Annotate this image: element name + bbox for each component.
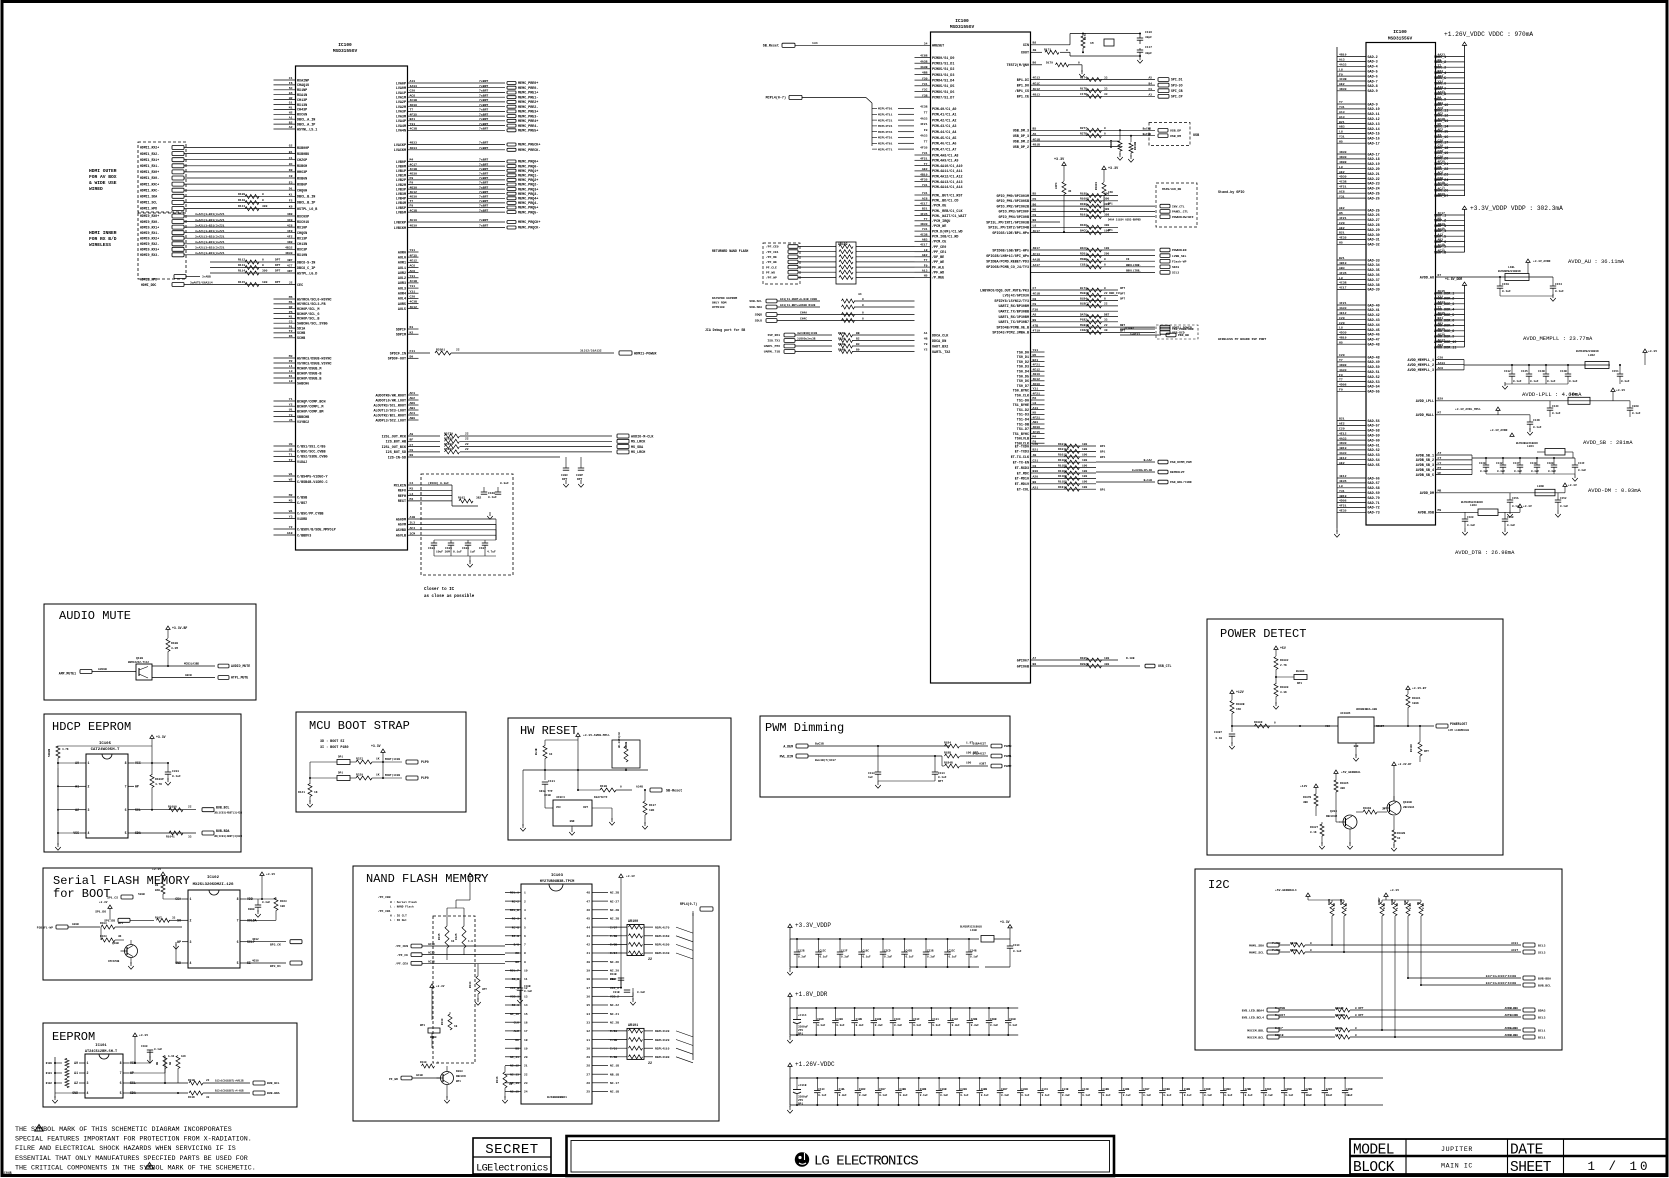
svg-text:3: 3 bbox=[88, 808, 90, 812]
svg-text:Y3C: Y3C bbox=[922, 88, 928, 92]
svg-text:R136: R136 bbox=[496, 1076, 499, 1083]
svg-text:44: 44 bbox=[586, 926, 590, 929]
svg-text:R1B4: R1B4 bbox=[944, 742, 951, 745]
svg-text:R1011A: R1011A bbox=[1058, 448, 1069, 451]
svg-text:D303: D303 bbox=[456, 1070, 463, 1073]
svg-text:OPT: OPT bbox=[1120, 292, 1125, 295]
svg-text:SCL3: SCL3 bbox=[1538, 950, 1546, 954]
svg-text:+5V: +5V bbox=[1280, 646, 1286, 650]
svg-text:MEMC_PRECK-: MEMC_PRECK- bbox=[518, 149, 540, 153]
svg-text:A9: A9 bbox=[410, 432, 414, 436]
svg-text:EEPROM: EEPROM bbox=[52, 1030, 95, 1044]
svg-text:TS0_D4: TS0_D4 bbox=[1017, 371, 1029, 375]
svg-text:4E12: 4E12 bbox=[1339, 474, 1347, 478]
svg-text:B3: B3 bbox=[856, 343, 860, 346]
svg-text:GAD-68: GAD-68 bbox=[1368, 487, 1380, 491]
svg-text:1.5K: 1.5K bbox=[1333, 902, 1336, 909]
svg-text:0.3uF: 0.3uF bbox=[839, 1094, 847, 1097]
svg-text:R100B: R100B bbox=[1236, 703, 1245, 706]
svg-text:/PF_CB0: /PF_CB0 bbox=[378, 895, 391, 899]
svg-text:PCML_WAIT/C1_WAIT: PCML_WAIT/C1_WAIT bbox=[932, 214, 967, 219]
svg-text:31J12/31A132: 31J12/31A132 bbox=[580, 349, 602, 353]
svg-text:Y31: Y31 bbox=[410, 289, 416, 293]
svg-text:T7: T7 bbox=[1339, 378, 1343, 382]
svg-text:PCML45/C1_A5: PCML45/C1_A5 bbox=[932, 136, 956, 141]
svg-text:TS0LVLB: TS0LVLB bbox=[1015, 438, 1029, 442]
svg-text:DPT: DPT bbox=[562, 478, 567, 481]
svg-text:XOUT: XOUT bbox=[1021, 52, 1029, 56]
svg-text:R110: R110 bbox=[238, 199, 245, 202]
svg-text:TS0_D1: TS0_D1 bbox=[1017, 356, 1029, 360]
svg-text:DPT: DPT bbox=[938, 780, 943, 783]
svg-text:+3.3V-AVDB-MPLL: +3.3V-AVDB-MPLL bbox=[583, 734, 610, 737]
svg-text:GAD-48: GAD-48 bbox=[1368, 356, 1380, 360]
svg-text:4C8B: 4C8B bbox=[920, 54, 928, 58]
svg-text:LVA0M: LVA0M bbox=[396, 87, 406, 91]
svg-text:GAD-4: GAD-4 bbox=[1368, 66, 1378, 70]
svg-text:100: 100 bbox=[1082, 475, 1087, 478]
svg-text:C1BB: C1BB bbox=[1123, 1088, 1130, 1091]
svg-text:7xBRT: 7xBRT bbox=[479, 172, 488, 176]
svg-text:M4: M4 bbox=[410, 158, 414, 162]
svg-text:R+1M3B: R+1M3B bbox=[1275, 1007, 1285, 1010]
svg-text:R34B: R34B bbox=[838, 349, 845, 352]
svg-text:BCHQP/COMP_BCH: BCHQP/COMP_BCH bbox=[297, 399, 326, 404]
svg-text:GAD-60: GAD-60 bbox=[1368, 439, 1380, 443]
svg-text:USB_DM: USB_DM bbox=[1170, 134, 1181, 138]
svg-text:0.3uF: 0.3uF bbox=[1062, 1094, 1070, 1097]
svg-text:LVA4N: LVA4N bbox=[396, 130, 406, 134]
svg-text:NC_13: NC_13 bbox=[510, 1073, 519, 1076]
svg-text:C34B: C34B bbox=[970, 950, 977, 953]
svg-text:/PF_WD: /PF_WD bbox=[932, 271, 944, 276]
svg-text:C30B: C30B bbox=[836, 1018, 843, 1021]
svg-text:Y1: Y1 bbox=[289, 397, 293, 401]
svg-text:22: 22 bbox=[456, 349, 460, 352]
svg-text:0: 0 bbox=[1104, 264, 1106, 267]
svg-text:NC.17: NC.17 bbox=[610, 1082, 619, 1085]
svg-text:C150: C150 bbox=[1502, 283, 1509, 286]
svg-text:P5: P5 bbox=[289, 310, 293, 314]
svg-text:+1.26V_VDDC VDDC : 970mA: +1.26V_VDDC VDDC : 970mA bbox=[1444, 31, 1533, 38]
svg-text:A13: A13 bbox=[922, 268, 928, 272]
svg-text:4E12: 4E12 bbox=[410, 190, 418, 194]
svg-text:BUB_BCL: BUB_BCL bbox=[1538, 983, 1551, 987]
svg-text:NC-27: NC-27 bbox=[610, 900, 619, 903]
svg-text:C12C: C12C bbox=[820, 950, 827, 953]
svg-text:34: 34 bbox=[586, 1013, 590, 1016]
svg-text:TS0_D7: TS0_D7 bbox=[1017, 385, 1029, 389]
svg-text:3+A21(3+B21(3+Z21: 3+A21(3+B21(3+Z21 bbox=[195, 223, 225, 227]
svg-text:4B19: 4B19 bbox=[1339, 446, 1347, 450]
svg-text:33: 33 bbox=[206, 1096, 210, 1099]
svg-text:B6: B6 bbox=[1033, 61, 1037, 65]
svg-text:38: 38 bbox=[586, 978, 590, 981]
svg-text:WIRELESS: WIRELESS bbox=[89, 242, 111, 248]
svg-text:4T19: 4T19 bbox=[1033, 329, 1041, 333]
svg-text:Y31: Y31 bbox=[922, 227, 928, 231]
svg-text:GAD-61: GAD-61 bbox=[1368, 444, 1380, 448]
svg-text:AE2: AE2 bbox=[1339, 461, 1345, 465]
svg-text:SPI3L_PM/INT2/GPIO4B: SPI3L_PM/INT2/GPIO4B bbox=[988, 226, 1029, 231]
svg-text:B21: B21 bbox=[1033, 448, 1039, 452]
svg-text:C/BSB: C/BSB bbox=[297, 495, 307, 500]
svg-text:0.1uF: 0.1uF bbox=[820, 956, 828, 959]
svg-text:3C3C4: 3C3C4 bbox=[556, 796, 565, 799]
svg-text:D1T9: D1T9 bbox=[1046, 62, 1053, 65]
svg-text:MXCCM_BDL: MXCCM_BDL bbox=[1247, 1028, 1264, 1032]
svg-text:LVA2M: LVA2M bbox=[396, 106, 406, 110]
svg-text:0.3uF: 0.3uF bbox=[1578, 469, 1586, 472]
svg-text:MEMC_PRE0-: MEMC_PRE0- bbox=[518, 87, 538, 91]
svg-text:MEMC_PRQ0+: MEMC_PRQ0+ bbox=[518, 161, 538, 165]
svg-text:T2: T2 bbox=[289, 329, 293, 333]
svg-text:C12B: C12B bbox=[798, 950, 805, 953]
svg-text:L8: L8 bbox=[1339, 326, 1343, 330]
svg-text:MCPL4T31: MCPL4T31 bbox=[878, 125, 893, 128]
svg-text:0.3uF: 0.3uF bbox=[500, 482, 509, 485]
svg-text:+3.3V: +3.3V bbox=[139, 1034, 148, 1037]
svg-text:D3B0: D3B0 bbox=[248, 908, 255, 911]
svg-text:B21: B21 bbox=[1033, 358, 1039, 362]
svg-text:PCM_D(0M)/C1_WD: PCM_D(0M)/C1_WD bbox=[932, 229, 963, 234]
svg-text:BYB_LED_BCL4: BYB_LED_BCL4 bbox=[1242, 1015, 1264, 1019]
svg-text:4E35: 4E35 bbox=[1339, 509, 1347, 513]
svg-text:PCML4A11/C1_A11: PCML4A11/C1_A11 bbox=[932, 169, 963, 174]
svg-text:BLM18PG221BH1D: BLM18PG221BH1D bbox=[1461, 501, 1483, 504]
svg-text:0PT: 0PT bbox=[482, 988, 487, 991]
svg-text:RGPL4120: RGPL4120 bbox=[655, 1039, 670, 1042]
svg-text:GAD-50: GAD-50 bbox=[1368, 366, 1380, 370]
svg-text:SB-Reset: SB-Reset bbox=[666, 790, 682, 794]
svg-text:GAD-25: GAD-25 bbox=[1368, 209, 1380, 213]
svg-text:AVDD_DM: AVDD_DM bbox=[1420, 492, 1434, 496]
svg-text:0.1uF: 0.1uF bbox=[1502, 290, 1511, 293]
svg-text:1N1A TYP: 1N1A TYP bbox=[539, 790, 553, 793]
svg-text:& WIDE USE: & WIDE USE bbox=[89, 180, 117, 186]
svg-text:MEMC_PRQ3+: MEMC_PRQ3+ bbox=[518, 188, 538, 192]
svg-text:C1: C1 bbox=[289, 156, 293, 160]
svg-text:100: 100 bbox=[1104, 247, 1109, 250]
svg-text:AC8: AC8 bbox=[1339, 189, 1345, 193]
svg-text:USB_DM_2: USB_DM_2 bbox=[1013, 140, 1029, 144]
svg-text:ESSENTIAL THAT ONLY MANUFATURE: ESSENTIAL THAT ONLY MANUFATURES SPECFIED… bbox=[15, 1155, 248, 1163]
svg-text:K6: K6 bbox=[289, 205, 293, 209]
svg-text:VCC: VCC bbox=[1325, 725, 1330, 728]
svg-text:HDMI1_RX1-: HDMI1_RX1- bbox=[140, 164, 159, 168]
svg-text:A8: A8 bbox=[1033, 313, 1037, 317]
svg-text:R1BB2B: R1BB2B bbox=[1335, 1014, 1345, 1017]
svg-text:R1BE: R1BE bbox=[1335, 1027, 1342, 1030]
svg-text:+3.3V-BF: +3.3V-BF bbox=[172, 626, 187, 630]
svg-text:USB: USB bbox=[1193, 134, 1199, 138]
svg-text:B30: B30 bbox=[1033, 469, 1039, 473]
svg-text:NC.2B: NC.2B bbox=[610, 892, 619, 895]
svg-text:C30B: C30B bbox=[940, 1088, 947, 1091]
svg-text:/PF_CE1: /PF_CE1 bbox=[766, 250, 779, 254]
svg-text:GAD-55: GAD-55 bbox=[1368, 391, 1380, 395]
svg-text:B21: B21 bbox=[1339, 417, 1345, 421]
svg-text:C20: C20 bbox=[1438, 356, 1444, 360]
svg-text:R109P: R109P bbox=[155, 778, 164, 781]
svg-text:7xBRT: 7xBRT bbox=[479, 79, 488, 83]
svg-text:1uBT21: 1uBT21 bbox=[1130, 333, 1140, 336]
svg-text:4D30: 4D30 bbox=[1033, 425, 1041, 429]
svg-text:7xBRT: 7xBRT bbox=[479, 127, 488, 131]
svg-text:A50DM: A50DM bbox=[396, 518, 406, 522]
svg-text:K7: K7 bbox=[1438, 273, 1442, 277]
svg-text:GAD-9: GAD-9 bbox=[1368, 103, 1378, 107]
svg-text:4A33: 4A33 bbox=[1339, 451, 1347, 455]
svg-text:U2: U2 bbox=[289, 447, 293, 451]
svg-text:4E12: 4E12 bbox=[1033, 377, 1041, 381]
svg-text:C30B: C30B bbox=[1021, 1088, 1028, 1091]
svg-text:M1: M1 bbox=[289, 315, 293, 319]
svg-text:3BuF: 3BuF bbox=[1346, 1094, 1353, 1097]
svg-text:4: 4 bbox=[87, 1091, 89, 1095]
svg-text:HCD0B4BEA-A0B: HCD0B4BEA-A0B bbox=[1356, 708, 1377, 711]
svg-text:7xBRT: 7xBRT bbox=[479, 117, 488, 121]
svg-text:1: 1 bbox=[88, 761, 90, 765]
svg-text:C20: C20 bbox=[410, 89, 416, 93]
svg-text:0.3uF: 0.3uF bbox=[1548, 470, 1556, 473]
svg-text:BLM18PG221BH1D: BLM18PG221BH1D bbox=[1576, 350, 1599, 353]
svg-text:A13: A13 bbox=[410, 79, 416, 83]
svg-text:4E1C: 4E1C bbox=[1033, 81, 1041, 85]
svg-text:33: 33 bbox=[1104, 319, 1108, 322]
svg-text:4B19: 4B19 bbox=[1339, 336, 1347, 340]
svg-text:0.1uF: 0.1uF bbox=[453, 551, 462, 554]
svg-text:C31B: C31B bbox=[613, 991, 620, 994]
svg-text:A13: A13 bbox=[1339, 58, 1345, 62]
svg-text:CHQ6H: CHQ6H bbox=[297, 190, 307, 194]
svg-text:MLB3B: MLB3B bbox=[1080, 324, 1089, 327]
svg-text:R1008: R1008 bbox=[1254, 721, 1263, 724]
svg-text:GAD-16: GAD-16 bbox=[1368, 138, 1380, 142]
svg-text:SP1_DO: SP1_DO bbox=[95, 911, 106, 914]
svg-text:1K: 1K bbox=[376, 758, 380, 761]
svg-text:MEMC_PRE4+: MEMC_PRE4+ bbox=[518, 120, 538, 124]
svg-text:0: 0 bbox=[262, 193, 264, 196]
svg-text:F9: F9 bbox=[1033, 213, 1037, 217]
svg-text:AC8: AC8 bbox=[922, 196, 928, 200]
svg-text:IC102: IC102 bbox=[207, 876, 220, 880]
svg-text:GND: GND bbox=[570, 820, 575, 823]
svg-text:JUPITER: JUPITER bbox=[1441, 1146, 1473, 1153]
svg-text:2: 2 bbox=[87, 1071, 89, 1075]
svg-text:MCPL4T41: MCPL4T41 bbox=[878, 131, 893, 134]
svg-text:Y31: Y31 bbox=[1033, 348, 1039, 352]
svg-text:AUDOTR0/HR_ROUT: AUDOTR0/HR_ROUT bbox=[375, 393, 406, 398]
svg-text:MXCCM_BCL: MXCCM_BCL bbox=[1247, 1035, 1264, 1039]
svg-text:PCML4A14/C1_A14: PCML4A14/C1_A14 bbox=[932, 185, 963, 190]
svg-text:+12V: +12V bbox=[1300, 785, 1307, 788]
svg-text:ALOUTR2/BCL_ROUT: ALOUTR2/BCL_ROUT bbox=[373, 413, 406, 418]
svg-text:P1P0: P1P0 bbox=[421, 776, 429, 780]
svg-text:H5: H5 bbox=[1033, 411, 1037, 415]
svg-text:/P_REE: /P_REE bbox=[932, 276, 944, 281]
svg-text:BBuF: BBuF bbox=[610, 978, 617, 981]
svg-text:R105: R105 bbox=[1080, 657, 1087, 660]
svg-text:HDMI0_RX0-: HDMI0_RX0- bbox=[140, 220, 159, 224]
svg-text:D9: D9 bbox=[410, 354, 414, 358]
svg-text:0.1uF: 0.1uF bbox=[1245, 1094, 1253, 1097]
svg-text:300: 300 bbox=[262, 270, 268, 273]
svg-text:27: 27 bbox=[586, 1073, 590, 1076]
svg-text:AVDD_SB : 281mA: AVDD_SB : 281mA bbox=[1583, 439, 1633, 446]
svg-text:3: 3 bbox=[87, 1081, 89, 1085]
svg-text:AB3: AB3 bbox=[1033, 420, 1039, 424]
svg-text:SP3-3O: SP3-3O bbox=[1171, 83, 1183, 87]
svg-text:RXB00P: RXB00P bbox=[297, 147, 309, 151]
svg-text:7xBRT: 7xBRT bbox=[479, 181, 488, 185]
svg-text:USB_DP: USB_DP bbox=[1170, 129, 1181, 133]
svg-text:40: 40 bbox=[586, 961, 590, 964]
svg-text:LCM LLOBMCHLB: LCM LLOBMCHLB bbox=[1448, 729, 1469, 732]
svg-text:R27B: R27B bbox=[1080, 133, 1087, 136]
svg-text:R101: R101 bbox=[46, 1072, 53, 1075]
svg-text:GAD-32: GAD-32 bbox=[1368, 244, 1380, 248]
svg-text:B13+1C011B8T(+4-H1B: B13+1C011B8T(+4-H1B bbox=[215, 1090, 244, 1093]
svg-text:D1: D1 bbox=[289, 186, 293, 190]
svg-text:0: 0 bbox=[1104, 258, 1106, 261]
svg-text:AD9: AD9 bbox=[410, 401, 416, 405]
svg-text:C140: C140 bbox=[1479, 462, 1486, 465]
svg-text:T7: T7 bbox=[410, 199, 414, 203]
svg-text:5: 5 bbox=[120, 1091, 122, 1095]
svg-text:MB: MB bbox=[1438, 489, 1442, 493]
svg-text:M4: M4 bbox=[1033, 396, 1037, 400]
svg-text:AXTBA3RB: AXTBA3RB bbox=[1505, 1014, 1519, 1017]
svg-text:GPIO6B: GPIO6B bbox=[1017, 665, 1029, 669]
svg-text:LVBCKM: LVBCKM bbox=[394, 227, 406, 231]
svg-text:GAD-24: GAD-24 bbox=[1368, 188, 1380, 192]
svg-text:0: 0 bbox=[1066, 49, 1068, 52]
svg-text:NC.1B: NC.1B bbox=[610, 1065, 619, 1068]
svg-text:B8: B8 bbox=[1033, 480, 1037, 484]
svg-text:4F21: 4F21 bbox=[1339, 185, 1347, 189]
svg-text:200: 200 bbox=[1104, 252, 1109, 255]
svg-text:1B: 1B bbox=[454, 1025, 458, 1028]
svg-text:C8: C8 bbox=[1126, 258, 1130, 261]
svg-text:7xBRT: 7xBRT bbox=[479, 208, 488, 212]
svg-text:4C3B: 4C3B bbox=[410, 208, 418, 212]
svg-text:4D30: 4D30 bbox=[920, 222, 928, 226]
svg-text:PCMD3/S1_D1: PCMD3/S1_D1 bbox=[932, 62, 954, 67]
svg-text:GAD-12: GAD-12 bbox=[1368, 118, 1380, 122]
svg-text:RX10P: RX10P bbox=[297, 226, 307, 230]
svg-text:TS1-D2: TS1-D2 bbox=[1017, 409, 1029, 413]
svg-text:4E13: 4E13 bbox=[1033, 76, 1041, 80]
svg-text:4A33: 4A33 bbox=[1339, 63, 1347, 67]
svg-text:4A33: 4A33 bbox=[1438, 361, 1446, 365]
svg-text:1: 1 bbox=[190, 897, 192, 901]
svg-text:NC.2U: NC.2U bbox=[610, 961, 619, 964]
svg-text:BP1: BP1 bbox=[798, 1033, 803, 1036]
svg-text:530B: 530B bbox=[138, 893, 145, 896]
svg-text:C/BS4P5-V1DEO-Y: C/BS4P5-V1DEO-Y bbox=[297, 474, 328, 479]
svg-text:0.1uF: 0.1uF bbox=[524, 990, 532, 993]
svg-text:GAD-53: GAD-53 bbox=[1368, 381, 1380, 385]
svg-text:MAIN IC: MAIN IC bbox=[1441, 1163, 1473, 1170]
svg-text:33: 33 bbox=[188, 836, 192, 839]
svg-text:REXT: REXT bbox=[398, 500, 406, 504]
svg-text:LVB4M: LVB4M bbox=[396, 202, 406, 206]
svg-text:HDMI1_SCL: HDMI1_SCL bbox=[140, 201, 157, 205]
svg-text:47B: 47B bbox=[1033, 323, 1039, 327]
svg-text:RGPL4110: RGPL4110 bbox=[655, 1047, 670, 1050]
svg-text:15K: 15K bbox=[1236, 708, 1241, 711]
svg-text:GAD-44: GAD-44 bbox=[1368, 324, 1380, 328]
svg-text:MEMC_PRQ3-: MEMC_PRQ3- bbox=[518, 193, 538, 197]
svg-text:22: 22 bbox=[524, 1073, 528, 1076]
svg-text:C/BS1/SS1_C/B5: C/BS1/SS1_C/B5 bbox=[297, 444, 326, 449]
svg-text:R34B: R34B bbox=[838, 332, 845, 335]
svg-text:DPT: DPT bbox=[577, 478, 582, 481]
svg-text:RB: RB bbox=[1417, 901, 1420, 905]
svg-text:4F35: 4F35 bbox=[920, 212, 928, 216]
svg-text:R1182: R1182 bbox=[1058, 464, 1067, 467]
svg-text:M1: M1 bbox=[289, 300, 293, 304]
svg-text:R1BB: R1BB bbox=[944, 752, 951, 755]
svg-text:D/B: D/B bbox=[514, 943, 520, 947]
svg-text:B9: B9 bbox=[155, 884, 159, 887]
svg-text:IC100: IC100 bbox=[955, 18, 969, 24]
svg-text:R137: R137 bbox=[649, 804, 656, 807]
svg-text:7: 7 bbox=[524, 944, 526, 947]
svg-text:C1B7: C1B7 bbox=[1143, 1088, 1150, 1091]
svg-text:AB3: AB3 bbox=[1339, 125, 1345, 129]
svg-text:CEC: CEC bbox=[297, 284, 303, 288]
svg-text:22: 22 bbox=[206, 1079, 210, 1082]
svg-text:4E12: 4E12 bbox=[1339, 431, 1347, 435]
svg-text:R179: R179 bbox=[1084, 33, 1087, 40]
svg-text:C/BBDV3: C/BBDV3 bbox=[297, 533, 311, 538]
svg-text:C7: C7 bbox=[410, 443, 414, 447]
svg-text:RESET: RESET bbox=[1376, 725, 1384, 728]
svg-text:AUL0: AUL0 bbox=[398, 256, 406, 260]
svg-text:B4CC: B4CC bbox=[1080, 229, 1087, 232]
svg-text:Stand-by GPIO: Stand-by GPIO bbox=[1218, 190, 1244, 195]
svg-text:5C: 5C bbox=[289, 86, 293, 90]
svg-text:0.1uF: 0.1uF bbox=[488, 496, 497, 499]
svg-text:3uC3B1B(1C3B: 3uC3B1B(1C3B bbox=[797, 331, 817, 335]
svg-text:0.5K: 0.5K bbox=[1383, 902, 1386, 909]
svg-text:P1: P1 bbox=[289, 324, 293, 328]
svg-text:Y31: Y31 bbox=[1339, 105, 1345, 109]
svg-text:/PF_CE9: /PF_CE9 bbox=[395, 962, 408, 966]
svg-text:I2S_BUT_SD: I2S_BUT_SD bbox=[386, 451, 406, 455]
svg-text:/PCM_OE: /PCM_OE bbox=[932, 204, 946, 209]
svg-text:FOR RX B/D: FOR RX B/D bbox=[89, 236, 117, 242]
svg-text:USB_DM_3: USB_DM_3 bbox=[1013, 130, 1029, 134]
svg-text:D1BA4C3T: D1BA4C3T bbox=[973, 743, 987, 746]
svg-text:RXA1N: RXA1N bbox=[297, 94, 307, 98]
svg-text:R110C: R110C bbox=[1410, 744, 1413, 752]
svg-text:SD43: SD43 bbox=[1172, 266, 1179, 269]
svg-text:F3: F3 bbox=[1149, 88, 1153, 91]
svg-text:SUB-SDA: SUB-SDA bbox=[749, 306, 762, 309]
svg-text:HTPL_MUTE: HTPL_MUTE bbox=[231, 676, 248, 680]
svg-text:R1027: R1027 bbox=[1310, 826, 1318, 829]
svg-text:2-2K: 2-2K bbox=[1409, 902, 1412, 909]
svg-text:AUR2: AUR2 bbox=[398, 272, 406, 276]
svg-text:ALOUTL3/SC3-LOUT: ALOUTL3/SC3-LOUT bbox=[373, 408, 406, 413]
svg-text:C189: C189 bbox=[1467, 516, 1474, 519]
svg-text:GAD-41: GAD-41 bbox=[1368, 309, 1380, 313]
svg-text:C/BSB4B-V1DEO.C: C/BSB4B-V1DEO.C bbox=[297, 480, 328, 485]
svg-text:as close as possible: as close as possible bbox=[424, 594, 475, 599]
